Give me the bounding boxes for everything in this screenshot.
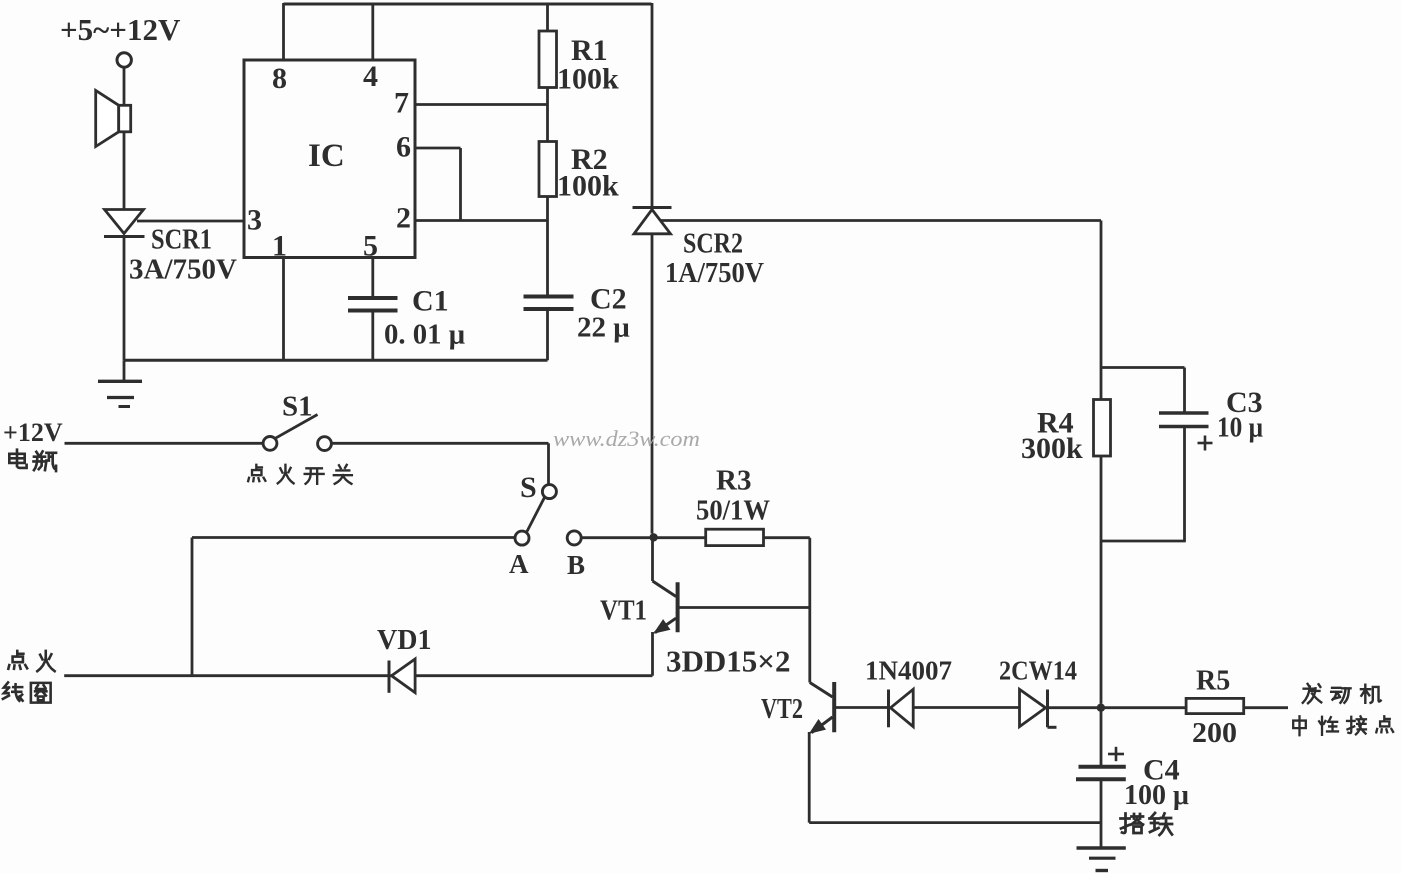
svg-text:3: 3 [247,204,262,237]
svg-text:300k: 300k [1021,432,1083,465]
svg-text:0. 01 μ: 0. 01 μ [384,319,466,351]
svg-text:S: S [520,471,537,504]
svg-text:R3: R3 [716,465,751,497]
svg-text:4: 4 [363,60,378,93]
svg-text:1A/750V: 1A/750V [665,257,764,289]
svg-text:+12V: +12V [3,418,63,447]
svg-text:VD1: VD1 [377,625,431,656]
svg-text:VT2: VT2 [761,693,803,725]
svg-text:B: B [567,550,585,580]
svg-text:2CW14: 2CW14 [999,656,1077,686]
svg-text:50/1W: 50/1W [696,495,770,527]
svg-text:5: 5 [363,230,378,263]
svg-text:1N4007: 1N4007 [865,656,952,686]
svg-text:100k: 100k [557,170,619,203]
svg-text:3A/750V: 3A/750V [129,254,237,286]
svg-text:S1: S1 [282,391,313,423]
svg-text:8: 8 [272,62,287,95]
svg-text:6: 6 [396,131,411,164]
svg-text:3DD15×2: 3DD15×2 [666,644,790,679]
svg-text:1: 1 [272,230,287,263]
svg-text:SCR2: SCR2 [683,228,743,260]
svg-text:C1: C1 [412,285,449,318]
svg-text:R5: R5 [1196,666,1230,697]
svg-text:100 μ: 100 μ [1124,780,1189,811]
svg-text:SCR1: SCR1 [151,224,212,256]
svg-text:22 μ: 22 μ [577,312,630,344]
svg-text:7: 7 [394,87,409,120]
svg-text:+5~+12V: +5~+12V [60,12,181,47]
svg-text:100k: 100k [557,63,619,96]
svg-text:www.dz3w.com: www.dz3w.com [553,426,700,451]
svg-text:10 μ: 10 μ [1217,412,1263,444]
svg-text:2: 2 [396,202,411,235]
svg-text:IC: IC [308,138,345,174]
svg-text:VT1: VT1 [600,595,647,627]
svg-text:A: A [509,549,529,579]
svg-text:200: 200 [1192,718,1237,749]
